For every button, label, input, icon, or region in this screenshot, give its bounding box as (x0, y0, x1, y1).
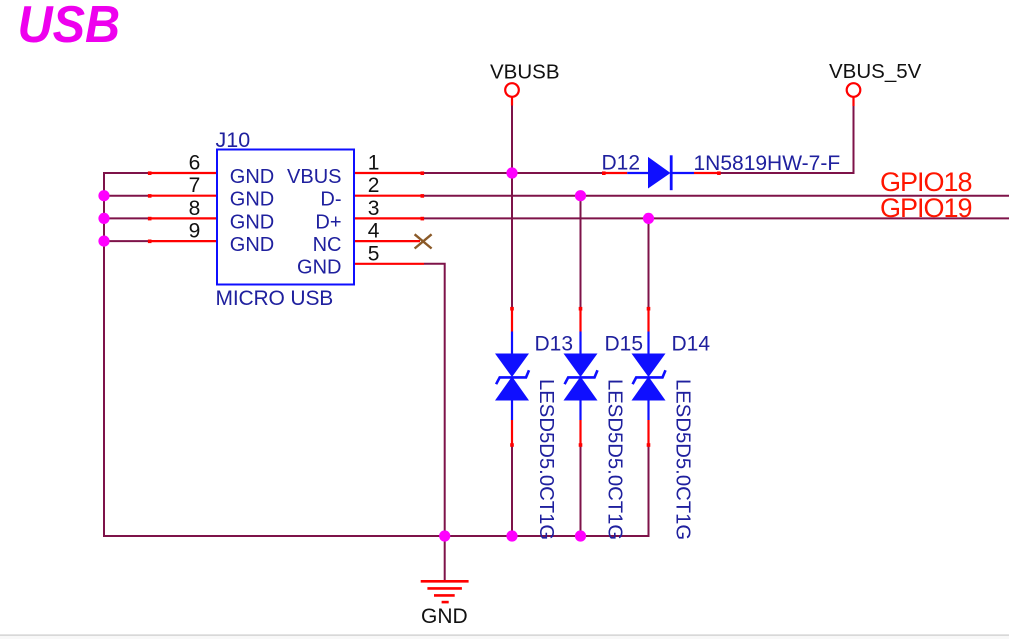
wire VBUSB net horizontal (422, 172, 603, 174)
wire D13 riser bottom (511, 445, 513, 536)
TVS diode D15 symbol (564, 332, 598, 421)
pin 6 stub (148, 171, 218, 175)
svg-text:GND: GND (230, 211, 274, 233)
junction D+ riser (643, 213, 654, 224)
svg-text:1: 1 (368, 152, 380, 175)
svg-text:2: 2 (368, 174, 380, 197)
pin 2 stub (354, 194, 424, 198)
junction D- riser (575, 190, 586, 201)
VBUS_5V terminal stub (852, 98, 854, 107)
pin 5 stub (354, 263, 424, 265)
junction pin9 (98, 236, 109, 247)
ground symbol (421, 581, 469, 602)
svg-text:NC: NC (313, 234, 342, 256)
svg-text:D+: D+ (315, 211, 341, 233)
svg-text:7: 7 (189, 174, 201, 197)
svg-text:6: 6 (189, 152, 201, 175)
junction VBUSB (506, 167, 517, 178)
svg-text:9: 9 (189, 220, 201, 243)
svg-text:8: 8 (189, 197, 201, 220)
wire D15 riser bottom (580, 445, 582, 536)
junction bus GND (439, 530, 450, 541)
pin 1 stub (354, 171, 424, 175)
power terminal VBUS_5V (847, 83, 861, 97)
svg-text:LESD5D5.0CT1G: LESD5D5.0CT1G (535, 379, 557, 540)
svg-text:GPIO19: GPIO19 (880, 193, 972, 223)
page edge line (0, 634, 1009, 636)
VBUSB terminal stub (511, 97, 513, 106)
pin 7 stub (148, 194, 218, 198)
svg-text:VBUSB: VBUSB (490, 61, 560, 84)
wire D- net GPIO18 (422, 195, 1009, 197)
wire GND-net left vertical and bottom bus (104, 173, 649, 536)
wire VBUS_5V from diode cathode (719, 106, 854, 174)
TVS diode D14 symbol (632, 332, 666, 421)
wire pin5 GND to bus (424, 264, 445, 536)
wire D+ net GPIO19 (422, 217, 1009, 219)
wire pin8 GND (104, 217, 150, 219)
svg-text:LESD5D5.0CT1G: LESD5D5.0CT1G (604, 379, 626, 540)
svg-text:5: 5 (368, 242, 380, 265)
svg-text:USB: USB (18, 0, 121, 53)
power terminal VBUSB (505, 83, 519, 97)
D12 cathode stub (694, 171, 721, 175)
svg-text:D13: D13 (535, 333, 574, 356)
svg-text:D-: D- (320, 189, 341, 211)
D12 anode stub (602, 171, 627, 175)
wire GND symbol drop (444, 536, 446, 581)
svg-text:LESD5D5.0CT1G: LESD5D5.0CT1G (672, 379, 694, 540)
wire pin7 GND (104, 195, 150, 197)
D15 bottom stub (579, 420, 583, 447)
diode D12 symbol (627, 155, 694, 190)
D13 bottom stub (510, 420, 514, 447)
wire VBUSB vertical (511, 105, 513, 309)
D14 bottom stub (647, 420, 651, 447)
svg-text:D12: D12 (602, 152, 641, 175)
pin 3 stub (354, 217, 424, 221)
svg-text:GND: GND (230, 189, 274, 211)
pin 4 stub (354, 240, 420, 242)
svg-text:GND: GND (297, 257, 341, 279)
junction bus D15 (575, 530, 586, 541)
svg-text:GND: GND (230, 234, 274, 256)
wire pin9 GND (104, 240, 150, 242)
svg-text:3: 3 (368, 197, 380, 220)
pin 8 stub (148, 217, 218, 221)
junction pin7 (98, 190, 109, 201)
svg-text:1N5819HW-7-F: 1N5819HW-7-F (694, 152, 841, 175)
TVS diode D13 symbol (495, 332, 529, 421)
svg-text:VBUS_5V: VBUS_5V (829, 60, 922, 83)
wire D15 riser top (580, 196, 582, 309)
D15 top stub (579, 307, 583, 332)
D14 top stub (647, 307, 651, 332)
D13 top stub (510, 307, 514, 332)
svg-text:D14: D14 (672, 333, 711, 356)
svg-text:D15: D15 (605, 333, 644, 356)
no-connect X on pin 4 (415, 234, 432, 248)
junction bus D13 (506, 530, 517, 541)
connector J10 body (217, 150, 354, 285)
svg-text:GND: GND (230, 166, 274, 188)
svg-text:4: 4 (368, 220, 380, 243)
svg-text:J10: J10 (216, 128, 251, 152)
svg-text:GND: GND (421, 605, 468, 628)
svg-text:MICRO USB: MICRO USB (216, 287, 334, 310)
wire D14 riser top (648, 218, 650, 308)
svg-text:VBUS: VBUS (287, 166, 341, 188)
pin 9 stub (148, 240, 218, 244)
junction pin8 (98, 213, 109, 224)
